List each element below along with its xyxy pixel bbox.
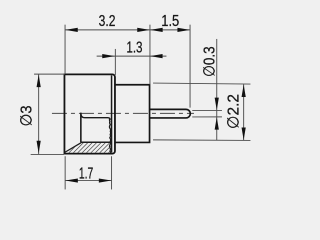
connector body (outline) (64, 74, 115, 153)
dimension line dia0.3 (216, 39, 218, 140)
extension line y=116.4 (pin bottom, dia0.3) (192, 116, 222, 118)
dimension line 3.2 / 1.5 (65, 29, 190, 31)
svg-text:∅0.3: ∅0.3 (202, 46, 219, 77)
arrow dia0.3 lower (outside, up) (215, 117, 219, 130)
arrow 3.2 right (137, 28, 150, 32)
arrow 1.5 left (150, 28, 163, 32)
extension line x=111.1 (dim 1.7 right) (111, 156, 113, 189)
extension line x=64.6 (dim 3.2 left) (64, 25, 66, 74)
svg-text:∅2.2: ∅2.2 (226, 94, 243, 129)
arrow 3.2 left (65, 28, 78, 32)
extension line y=154.1 (body bottom, dia3) (31, 154, 64, 156)
extension line y=139.7 (flange bottom, dia2.2) (153, 139, 250, 142)
arrow dia2.2 top (242, 84, 246, 97)
arrow dia2.2 bottom (242, 128, 246, 141)
section hatching (58, 141, 124, 154)
extension line x=149.5 (shared right) (149, 25, 151, 85)
arrow 1.3 left (outside) (102, 54, 115, 58)
extension line x=189.6 (pin tip) (189, 25, 191, 108)
extension line y=110.0 (pin top, dia0.3) (192, 109, 222, 111)
dimension line dia3 (38, 74, 40, 154)
arrow 1.7 left (65, 178, 78, 182)
svg-text:1.3: 1.3 (126, 39, 142, 56)
cavity bottom edge (section) (81, 141, 111, 143)
centerline (52, 112, 194, 114)
arrow dia3 bottom (37, 141, 41, 154)
dimension line 1.3 (97, 55, 167, 57)
arrow 1.3 right (outside) (150, 54, 163, 58)
serrated wall (wavy line) (109, 118, 110, 153)
arrow 1.7 right (99, 178, 112, 182)
flange cylinder (115, 85, 150, 143)
internal face edge line (111, 75, 113, 152)
arrow 1.5 right (177, 28, 190, 32)
extension line y=83 (flange top, dia2.2) (153, 83, 250, 84)
dimension line dia2.2 (243, 84, 245, 140)
svg-text:∅3: ∅3 (18, 105, 35, 126)
extension line x=114.9 (dim 1.3 left) (114, 49, 116, 75)
svg-text:1.5: 1.5 (161, 13, 179, 30)
contact pin (150, 109, 191, 118)
dimension line 1.7 (65, 180, 111, 182)
svg-text:3.2: 3.2 (99, 13, 116, 30)
bore step with fillets (section) (81, 114, 110, 120)
arrow dia0.3 upper (outside, down) (215, 98, 219, 111)
extension line x=64.7 (dim 1.7 left) (64, 156, 66, 189)
extension line y=73.7 (body top, dia3) (34, 73, 65, 75)
arrow dia3 top (37, 75, 41, 88)
svg-text:1.7: 1.7 (79, 166, 93, 183)
bore left wall (section) (80, 113, 82, 143)
chamfer diagonal at opening (section) (65, 143, 81, 153)
